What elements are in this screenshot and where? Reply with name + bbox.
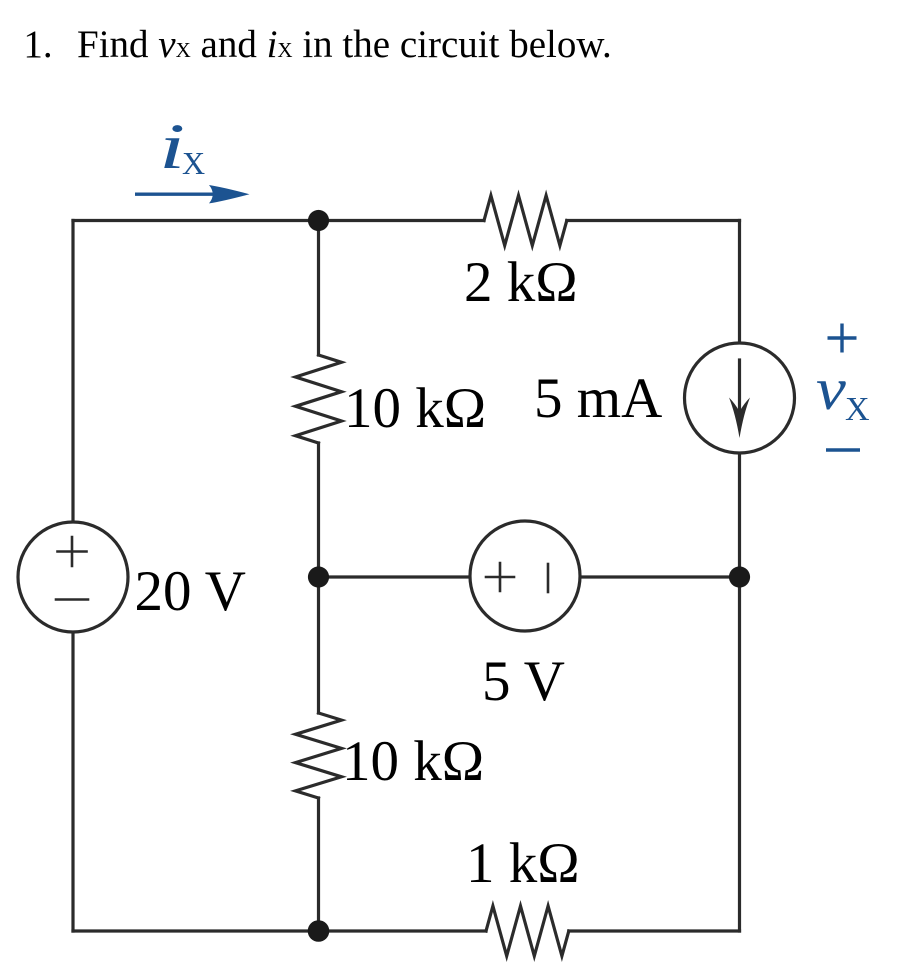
current source I-5mA circle <box>685 343 795 453</box>
svg-text:1.: 1. <box>23 23 52 66</box>
svg-text:5 mA: 5 mA <box>534 367 662 430</box>
I-5mA arrowhead <box>729 398 750 439</box>
v_x plus sign blue <box>828 324 857 353</box>
wire middle bottom <box>317 798 320 931</box>
node dot top <box>308 210 329 231</box>
V-5 minus bar <box>547 564 550 592</box>
wire right mid vertical <box>738 453 741 931</box>
V-20 minus sign <box>56 598 88 601</box>
svg-text:X: X <box>182 145 205 181</box>
svg-text:X: X <box>845 391 870 428</box>
resistor R-2k zigzag <box>484 196 567 246</box>
wire bottom-right horizontal <box>569 929 740 932</box>
wire middle to lower resistor <box>317 577 320 713</box>
svg-text:10 kΩ: 10 kΩ <box>342 730 484 793</box>
resistor R-10k upper zigzag <box>296 355 342 443</box>
wire 5V source to right node <box>580 575 740 578</box>
node dot middle <box>308 566 329 587</box>
wire middle between resistors <box>317 443 320 577</box>
resistor R-1k zigzag <box>486 906 569 956</box>
wire bottom-left horizontal <box>73 929 486 932</box>
node dot right <box>729 566 750 587</box>
wire middle branch top <box>317 221 320 356</box>
voltage source V-20 circle <box>18 522 128 632</box>
svg-text:5 V: 5 V <box>482 650 565 713</box>
voltage source V-5 circle <box>470 521 580 631</box>
resistor R-10k lower zigzag <box>296 713 342 798</box>
I-5mA arrow shaft <box>738 360 741 420</box>
V-5 plus sign <box>486 563 514 591</box>
v_x minus sign blue <box>826 448 860 451</box>
svg-text:10 kΩ: 10 kΩ <box>344 377 486 440</box>
wire top-right horizontal <box>567 219 740 222</box>
wire left lower vertical <box>71 632 74 931</box>
i_x arrow <box>135 192 214 195</box>
svg-text:2 kΩ: 2 kΩ <box>464 251 578 314</box>
wire left upper vertical <box>71 221 74 523</box>
wire node to 5V source <box>319 575 471 578</box>
node dot bottom <box>308 920 330 942</box>
svg-text:v: v <box>816 355 847 422</box>
svg-text:20 V: 20 V <box>135 560 246 623</box>
V-20 plus sign <box>58 537 87 566</box>
wire top-left horizontal <box>73 219 484 222</box>
wire right upper vertical <box>738 221 741 344</box>
svg-text:1 kΩ: 1 kΩ <box>466 832 580 895</box>
svg-text:Find vX and iX in the circuit: Find vX and iX in the circuit below. <box>77 23 612 66</box>
